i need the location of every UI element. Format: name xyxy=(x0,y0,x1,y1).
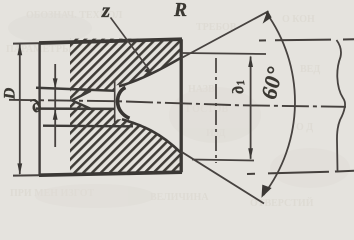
svg-text:ВЕЛИЧИНА: ВЕЛИЧИНА xyxy=(150,192,209,203)
lower generatrix extension xyxy=(182,152,265,204)
D dimension arrow bottom xyxy=(17,163,22,175)
centre axis line (dash-dot) xyxy=(9,100,346,107)
svg-text:ОТВЕРСТИЙ: ОТВЕРСТИЙ xyxy=(250,197,314,208)
workpiece right face xyxy=(180,39,183,172)
d1 dimension arrow bottom xyxy=(248,148,253,160)
workpiece bottom edge + D extension xyxy=(13,174,39,176)
svg-text:О КОН: О КОН xyxy=(282,14,315,25)
D dimension arrow top xyxy=(17,44,22,56)
svg-text:D: D xyxy=(2,87,19,100)
workpiece left edge xyxy=(38,43,40,175)
D dimension line xyxy=(19,45,21,175)
lower profile curve xyxy=(122,119,181,153)
dash-dot phantom outline top right xyxy=(259,39,354,40)
pilot hole bottom line / d lower extension xyxy=(36,107,115,110)
d dimension arrow lower xyxy=(53,109,58,120)
ghost watermark text (bleed-through) xyxy=(6,10,320,209)
d1 dimension line xyxy=(250,57,252,159)
drill point xyxy=(72,91,91,109)
svg-text:О Д: О Д xyxy=(296,122,313,133)
svg-text:R: R xyxy=(173,0,187,21)
arc arrow bottom xyxy=(262,185,272,198)
arc arrow top xyxy=(263,10,272,23)
svg-text:z: z xyxy=(101,0,111,22)
d1 lower extension line xyxy=(192,160,254,161)
60 degree arc xyxy=(264,13,295,195)
d dimension line with outside arrows xyxy=(54,64,56,147)
workpiece top edge + D extension xyxy=(13,42,39,44)
d1 dimension arrow top xyxy=(248,56,253,68)
d dimension arrow upper xyxy=(53,78,58,88)
leader z arrowhead xyxy=(144,68,152,74)
svg-text:ВЕД: ВЕД xyxy=(300,64,320,75)
lower auxiliary horizontal line xyxy=(43,124,133,127)
upper generatrix extension xyxy=(182,11,269,58)
break line (curly) xyxy=(337,40,346,171)
gauge plane dash-dot vertical xyxy=(215,58,217,163)
dash-dot phantom outline bottom right xyxy=(247,171,354,174)
d1 upper extension line xyxy=(182,53,267,54)
upper profile curve xyxy=(119,58,181,86)
radius-form arc (C) xyxy=(118,88,130,119)
vertical line at hole bottom xyxy=(114,79,116,125)
leader z xyxy=(111,18,152,74)
hatched section of workpiece xyxy=(70,38,182,174)
pilot hole top line / d upper extension xyxy=(36,88,115,91)
